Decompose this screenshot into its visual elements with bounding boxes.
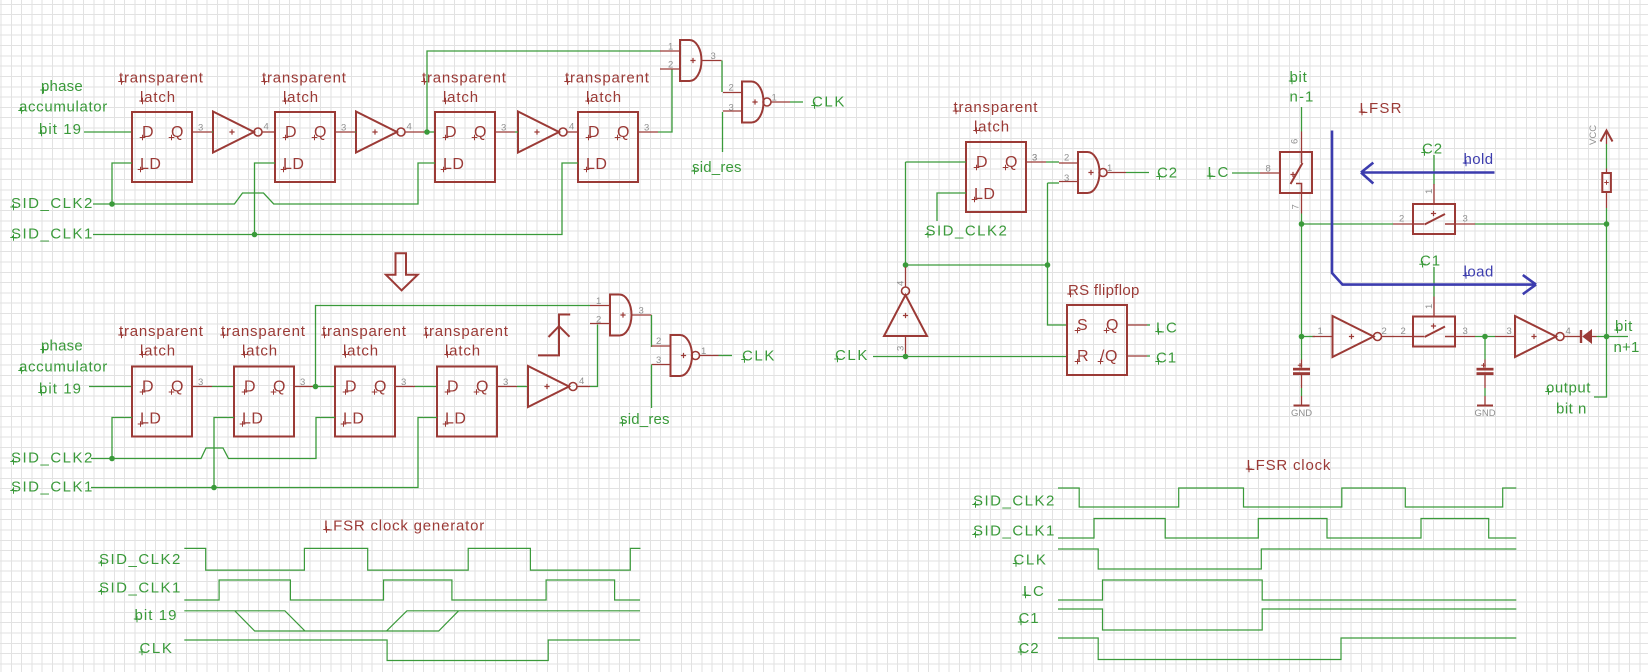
svg-text:SID_CLK2: SID_CLK2 (11, 195, 94, 212)
svg-text:transparent: transparent (422, 70, 507, 87)
svg-text:1: 1 (596, 296, 601, 307)
wire U13 Q to buffer U14 (517, 386, 528, 388)
svg-text:RS flipflop: RS flipflop (1068, 282, 1140, 299)
svg-text:LFSR clock generator: LFSR clock generator (324, 518, 485, 535)
waveform bit 19 (bottom-left) (184, 611, 640, 631)
waveform SID_CLK1 (bottom-left) (184, 580, 640, 600)
net label C1 (RS /Q) (1155, 350, 1177, 367)
label latch (row1) (585, 89, 622, 106)
svg-text:1: 1 (1107, 163, 1112, 174)
svg-text:LFSR clock: LFSR clock (1247, 457, 1332, 474)
buffer U23 output stub (1382, 336, 1394, 338)
label phase (row2) (40, 338, 83, 355)
svg-text:LD: LD (140, 411, 161, 428)
wire U11 Q to U12 D (314, 386, 335, 388)
analog switch U24 (load/C1) (1393, 297, 1475, 347)
waveform CLK (bottom-left) (184, 640, 640, 661)
wire capacitor C4 to GND (1484, 388, 1486, 396)
hollow down arrow symbol (386, 253, 418, 290)
capacitor C3 (left) (1293, 360, 1310, 389)
junction bit n+1 node (1604, 334, 1610, 340)
label output (1545, 380, 1591, 397)
wire bit19 row2 to latch U10 (89, 386, 132, 388)
buffer U23 (1333, 316, 1382, 357)
timing label CLK (bl) (139, 640, 174, 657)
wire LC to switch pin 8 (1232, 172, 1260, 174)
label latch (row2) (342, 343, 379, 360)
svg-text:CLK: CLK (1014, 552, 1048, 569)
svg-text:latch: latch (443, 89, 479, 106)
title LFSR clock (1246, 457, 1331, 474)
svg-text:latch: latch (242, 343, 278, 360)
wire AND1 out to NAND1 pin2 (721, 61, 723, 93)
svg-text:Q: Q (1005, 154, 1018, 171)
label bit 19 (row1) (38, 121, 82, 138)
svg-text:sid_res: sid_res (692, 159, 742, 176)
svg-text:1: 1 (701, 346, 706, 357)
latch U17 (mid) (966, 142, 1046, 212)
svg-text:3: 3 (300, 377, 305, 388)
junction at inverter output (903, 262, 909, 268)
wire branch to LD of U3 (255, 163, 276, 235)
timing label LC (br) (1022, 583, 1045, 600)
svg-text:1: 1 (1424, 189, 1435, 194)
svg-text:transparent: transparent (322, 323, 407, 340)
wire switch pin7 down (1301, 214, 1303, 225)
svg-text:latch: latch (445, 343, 481, 360)
diode D1 (1581, 330, 1597, 343)
svg-text:hold: hold (1464, 151, 1494, 168)
ground GND (left) (1291, 396, 1312, 419)
label accumulator (row1) (18, 99, 108, 116)
capacitor C4 (middle) (1477, 360, 1494, 389)
svg-text:GND: GND (1474, 408, 1495, 419)
buffer U14 (row2) (528, 366, 577, 407)
timing label SID_CLK1 (bl) (98, 580, 182, 597)
svg-text:3: 3 (896, 346, 907, 351)
wire SID_CLK2 row1 with hop (93, 163, 435, 204)
label n+1 (1614, 339, 1640, 356)
svg-text:LD: LD (343, 411, 364, 428)
svg-text:2: 2 (1382, 326, 1387, 337)
net label LC (switch control) (1207, 164, 1230, 181)
waveform SID_CLK2 (bottom-right) (1058, 488, 1516, 507)
svg-text:bit 19: bit 19 (39, 121, 82, 138)
wire AND2 out to NAND2 pin2 (651, 315, 653, 347)
wire SID_CLK2 row2 with hop (91, 418, 335, 459)
label latch (row2) (444, 343, 481, 360)
svg-text:1: 1 (668, 42, 673, 53)
latch U3 (row1) (275, 112, 355, 182)
svg-text:n-1: n-1 (1290, 89, 1315, 106)
waveform LC (bottom-right) (1058, 580, 1516, 600)
svg-text:Q: Q (171, 379, 184, 396)
label latch (row2) (139, 343, 176, 360)
wire SID_CLK1 row1 (93, 163, 578, 235)
svg-text:latch: latch (140, 343, 176, 360)
svg-text:C2: C2 (1422, 141, 1443, 158)
junction SID_CLK2 to LD U10 (109, 456, 115, 462)
svg-text:4: 4 (569, 122, 574, 133)
wire switch U24 pin3 to buffer U25 (1475, 336, 1495, 338)
svg-text:accumulator: accumulator (19, 99, 108, 116)
svg-text:CLK: CLK (812, 94, 846, 111)
svg-text:LD: LD (443, 156, 464, 173)
svg-text:3: 3 (1507, 326, 1512, 337)
latch U12 (row2) (335, 367, 415, 437)
svg-text:6: 6 (1290, 139, 1301, 144)
svg-text:LD: LD (242, 411, 263, 428)
svg-text:C2: C2 (1019, 640, 1040, 657)
svg-text:transparent: transparent (119, 323, 204, 340)
svg-text:transparent: transparent (424, 323, 509, 340)
svg-text:3: 3 (639, 306, 644, 317)
label load (blue) (1463, 264, 1494, 281)
wire RS /Q to C1 label (1147, 355, 1150, 357)
svg-text:SID_CLK2: SID_CLK2 (926, 223, 1009, 240)
svg-text:3: 3 (1064, 173, 1069, 184)
label transparent (row2) (321, 323, 406, 340)
inverter U19 (vertical) (884, 267, 927, 357)
title LFSR clock generator (323, 518, 485, 535)
svg-text:SID_CLK1: SID_CLK1 (99, 580, 182, 597)
svg-text:latch: latch (283, 89, 319, 106)
svg-text:2: 2 (1064, 153, 1069, 164)
wire sid_res to NAND1 pin3 (722, 112, 724, 152)
svg-text:C1: C1 (1156, 350, 1177, 367)
svg-text:SID_CLK1: SID_CLK1 (973, 523, 1056, 540)
junction node to AND2 pin1 (313, 384, 319, 390)
wire diode to bit n+1 node (1597, 336, 1629, 338)
label latch (row2) (241, 343, 278, 360)
wire U3-U4 (355, 131, 356, 133)
svg-text:2: 2 (729, 83, 734, 94)
label transparent (row1) (421, 70, 506, 87)
wire RS Q to LC label (1147, 324, 1150, 326)
wire D input of U17 (906, 161, 967, 163)
svg-text:3: 3 (341, 123, 346, 134)
svg-text:Q: Q (474, 124, 487, 141)
svg-text:D: D (447, 379, 459, 396)
svg-text:1: 1 (1424, 304, 1435, 309)
svg-text:D: D (345, 379, 357, 396)
latch U10 (row2) (132, 367, 212, 437)
svg-text:latch: latch (974, 119, 1010, 136)
net label SID_CLK2 (row2) (10, 450, 94, 467)
wire branch to LD of U1 (112, 163, 132, 204)
svg-text:3: 3 (503, 377, 508, 388)
svg-text:2: 2 (656, 336, 661, 347)
label n-1 (1290, 89, 1315, 106)
svg-text:SID_CLK2: SID_CLK2 (11, 450, 94, 467)
label accumulator (row2) (18, 359, 108, 376)
svg-text:Q: Q (617, 124, 630, 141)
label transparent (row2) (118, 323, 203, 340)
svg-text:LFSR: LFSR (1360, 100, 1403, 117)
svg-text:n+1: n+1 (1614, 339, 1640, 356)
svg-text:2: 2 (1401, 326, 1406, 337)
svg-text:3: 3 (198, 377, 203, 388)
wire NAND3 pin3 down to node (1047, 183, 1049, 265)
wire NAND3 pin3 horizontal (1048, 182, 1060, 184)
wire down to capacitor C3 (1301, 337, 1303, 360)
buffer U2 output stub (262, 131, 275, 133)
wire latch U7 Q to AND1 pin2 (658, 69, 672, 132)
wire resistor R1 down to bit n+1 node (1606, 208, 1608, 337)
svg-text:SID_CLK2: SID_CLK2 (973, 493, 1056, 510)
analog switch U21 (vertical) (1260, 132, 1312, 214)
wire NAND2 out to CLK label row2 (719, 355, 733, 357)
svg-text:CLK: CLK (835, 347, 869, 364)
buffer U23 input stub (1313, 336, 1333, 338)
ground GND (middle) (1474, 396, 1495, 419)
resistor R1 (1602, 169, 1611, 209)
svg-text:D: D (142, 124, 154, 141)
svg-text:LD: LD (586, 156, 607, 173)
label transparent (row1) (261, 70, 346, 87)
buffer U6 output stub (567, 131, 578, 133)
svg-text:3: 3 (198, 123, 203, 134)
net label SID_CLK1 (row2) (10, 479, 94, 496)
junction left rail / buffer row (1299, 334, 1305, 340)
wire C2 down to hold switch pin 1 (1433, 155, 1435, 185)
svg-text:1: 1 (1318, 326, 1323, 337)
svg-text:D: D (588, 124, 600, 141)
wire buffer U4 to latch U5 (426, 131, 435, 133)
junction SID_CLK1 to LD U11 (211, 485, 217, 491)
net label CLK (row2 output) (741, 348, 776, 365)
svg-text:sid_res: sid_res (620, 411, 670, 428)
svg-text:latch: latch (140, 89, 176, 106)
latch U5 (row1) (435, 112, 515, 182)
svg-text:CLK: CLK (140, 640, 174, 657)
latch U1 (row1) (132, 112, 212, 182)
svg-text:R: R (1077, 348, 1089, 365)
wire U1-U2 (212, 131, 213, 133)
wire sid_res row2 to NAND2 pin3 (651, 365, 653, 409)
svg-text:latch: latch (586, 89, 622, 106)
svg-text:bit n: bit n (1556, 401, 1587, 418)
VCC symbol (1588, 125, 1613, 145)
svg-text:3: 3 (656, 355, 661, 366)
svg-text:accumulator: accumulator (19, 359, 108, 376)
timing label SID_CLK2 (bl) (98, 551, 182, 568)
svg-text:C1: C1 (1420, 252, 1441, 269)
svg-text:D: D (244, 379, 256, 396)
svg-text:2: 2 (1399, 214, 1404, 225)
svg-text:3: 3 (1032, 153, 1037, 164)
svg-text:load: load (1464, 264, 1494, 281)
buffer U4 output stub (405, 131, 426, 133)
junction node Q2/AND pin1 branch (424, 129, 430, 135)
svg-text:transparent: transparent (262, 70, 347, 87)
net label C1 (load switch control) (1419, 252, 1441, 269)
svg-text:2: 2 (596, 315, 601, 326)
svg-text:SID_CLK1: SID_CLK1 (11, 226, 94, 243)
junction at NAND3 pin3 branch (1045, 262, 1051, 268)
net label sid_res (row1) (691, 159, 741, 176)
svg-text:LC: LC (1156, 320, 1178, 337)
NAND gate U9 (row1) (723, 82, 790, 123)
wire inverter top pin (905, 265, 907, 267)
blue annotation arrow load (1332, 131, 1536, 295)
label RS flipflop (1067, 282, 1139, 299)
svg-text:phase: phase (41, 338, 83, 355)
svg-text:3: 3 (501, 123, 506, 134)
label hold (blue) (1463, 151, 1494, 168)
wire hold switch pin 3 to VCC rail (1475, 223, 1607, 225)
net label SID_CLK1 (row1) (10, 226, 94, 243)
svg-text:GND: GND (1291, 408, 1312, 419)
svg-text:4: 4 (896, 281, 907, 286)
svg-text:SID_CLK2: SID_CLK2 (99, 551, 182, 568)
wire LD of U17 to SID_CLK2 label (937, 193, 966, 221)
wire node row2 up to AND2 pin1 (316, 306, 591, 387)
analog switch U22 (hold) (1393, 184, 1475, 234)
label bit n (1556, 401, 1587, 418)
wire branch to LD of U10 (112, 418, 132, 459)
svg-text:3: 3 (401, 377, 406, 388)
svg-text:D: D (285, 124, 297, 141)
timing label SID_CLK1 (br) (972, 523, 1056, 540)
wire VCC to resistor R1 (1606, 144, 1608, 169)
wire SID_CLK1 row2 (91, 418, 437, 488)
blue annotation arrow hold (1361, 163, 1495, 184)
buffer U6 (row1) (518, 112, 567, 153)
net label CLK (row1 output) (811, 94, 846, 111)
wire bit n+1 node down to output (1594, 337, 1607, 398)
latch U11 (row2) (234, 367, 314, 437)
buffer U14 output stub (577, 386, 590, 388)
label bit (n-1) (1289, 69, 1308, 86)
wire U5-U6 (515, 131, 518, 133)
label phase (row1) (40, 78, 83, 95)
svg-text:output: output (1546, 380, 1591, 397)
svg-text:4: 4 (407, 122, 412, 133)
svg-text:CLK: CLK (742, 348, 776, 365)
svg-text:phase: phase (41, 78, 83, 95)
RS flipflop U20 (1067, 305, 1147, 375)
label transparent (row2) (423, 323, 508, 340)
junction SID_CLK1 to LD U3 (252, 232, 258, 238)
waveform SID_CLK2 (bottom-left) (184, 548, 640, 570)
label latch (row1) (282, 89, 319, 106)
svg-text:/Q: /Q (1100, 348, 1118, 365)
svg-text:bit 19: bit 19 (39, 381, 82, 398)
wire CLK to RS R input (873, 356, 1067, 358)
wire buffer U14 out up to AND2 pin2 (590, 325, 598, 387)
wire U12 Q to U13 D (415, 386, 437, 388)
svg-text:3: 3 (711, 51, 716, 62)
label transparent (row1) (118, 70, 203, 87)
junction CLK / inverter input (903, 354, 909, 360)
buffer U25 input stub (1495, 336, 1515, 338)
label latch (row1) (442, 89, 479, 106)
latch U7 (row1) (578, 112, 658, 182)
junction capacitor C4 branch (1482, 334, 1488, 340)
net label sid_res (row2) (619, 411, 669, 428)
label bit (n+1) (1614, 318, 1633, 335)
label latch (mid latch) (973, 119, 1010, 136)
label transparent (mid latch) (953, 99, 1038, 116)
svg-text:Q: Q (476, 379, 489, 396)
svg-text:4: 4 (264, 122, 269, 133)
waveform CLK (bottom-right) (1058, 549, 1516, 569)
wire NAND3 out to C2 label (1126, 172, 1149, 174)
wire node to buffer U23 (1302, 336, 1316, 338)
wire U17 Q to NAND3 pin2 (1046, 161, 1059, 163)
wire node to hold switch pin 2 (1302, 223, 1394, 225)
buffer U25 (1515, 316, 1564, 357)
junction SID_CLK2 to LD U1 (109, 201, 115, 207)
svg-text:4: 4 (579, 376, 584, 387)
net label SID_CLK2 (mid) (925, 223, 1009, 240)
svg-text:bit 19: bit 19 (135, 607, 178, 624)
title LFSR (1359, 100, 1403, 117)
wire bit n-1 down to switch (1301, 107, 1303, 132)
svg-text:8: 8 (1266, 164, 1271, 175)
junction right rail / hold row (1604, 221, 1610, 227)
net label SID_CLK2 (row1) (10, 195, 94, 212)
svg-text:Q: Q (171, 124, 184, 141)
timing label CLK (br) (1013, 552, 1048, 569)
wire down to capacitor C4 (1484, 337, 1486, 360)
svg-text:LD: LD (445, 411, 466, 428)
svg-text:VCC: VCC (1588, 125, 1599, 145)
latch U13 (row2) (437, 367, 517, 437)
svg-text:LC: LC (1023, 583, 1045, 600)
AND gate U15 (row2) (590, 295, 652, 336)
svg-text:LD: LD (974, 186, 995, 203)
wire branch to LD of U11 (214, 418, 234, 488)
NAND gate U18 (mid) (1059, 152, 1126, 193)
net label C2 (mid) (1156, 165, 1178, 182)
timing label SID_CLK2 (br) (972, 493, 1056, 510)
AND gate U8 (row1) (660, 40, 722, 81)
svg-text:Q: Q (314, 124, 327, 141)
label bit 19 (row2) (38, 381, 82, 398)
svg-text:transparent: transparent (954, 99, 1039, 116)
svg-text:SID_CLK1: SID_CLK1 (11, 479, 94, 496)
svg-text:3: 3 (1463, 326, 1468, 337)
wire left rail down (1301, 224, 1303, 337)
timing label C1 (br) (1018, 610, 1040, 627)
svg-text:3: 3 (729, 103, 734, 114)
NAND gate U16 (row2) (652, 335, 719, 376)
svg-text:3: 3 (1463, 214, 1468, 225)
svg-text:D: D (445, 124, 457, 141)
svg-text:Q: Q (374, 379, 387, 396)
timing label C2 (br) (1018, 640, 1040, 657)
svg-text:LD: LD (283, 156, 304, 173)
svg-text:2: 2 (668, 60, 673, 71)
svg-text:4: 4 (1566, 326, 1571, 337)
wire buffer U25 to diode D1 (1564, 336, 1580, 338)
label transparent (row1) (564, 70, 649, 87)
wire feedback node to RS S input (906, 162, 1068, 325)
wire U10 Q to U11 D (212, 386, 234, 388)
wire bit19 to latch U1 (84, 131, 132, 133)
svg-text:1: 1 (772, 93, 777, 104)
svg-text:C1: C1 (1019, 610, 1040, 627)
label latch (row1) (139, 89, 176, 106)
svg-text:latch: latch (343, 343, 379, 360)
svg-text:LD: LD (140, 156, 161, 173)
wire capacitor C3 to GND (1301, 388, 1303, 396)
svg-text:D: D (976, 154, 988, 171)
net label C2 (hold switch control) (1421, 141, 1443, 158)
buffer U2 (row1) (213, 112, 262, 153)
